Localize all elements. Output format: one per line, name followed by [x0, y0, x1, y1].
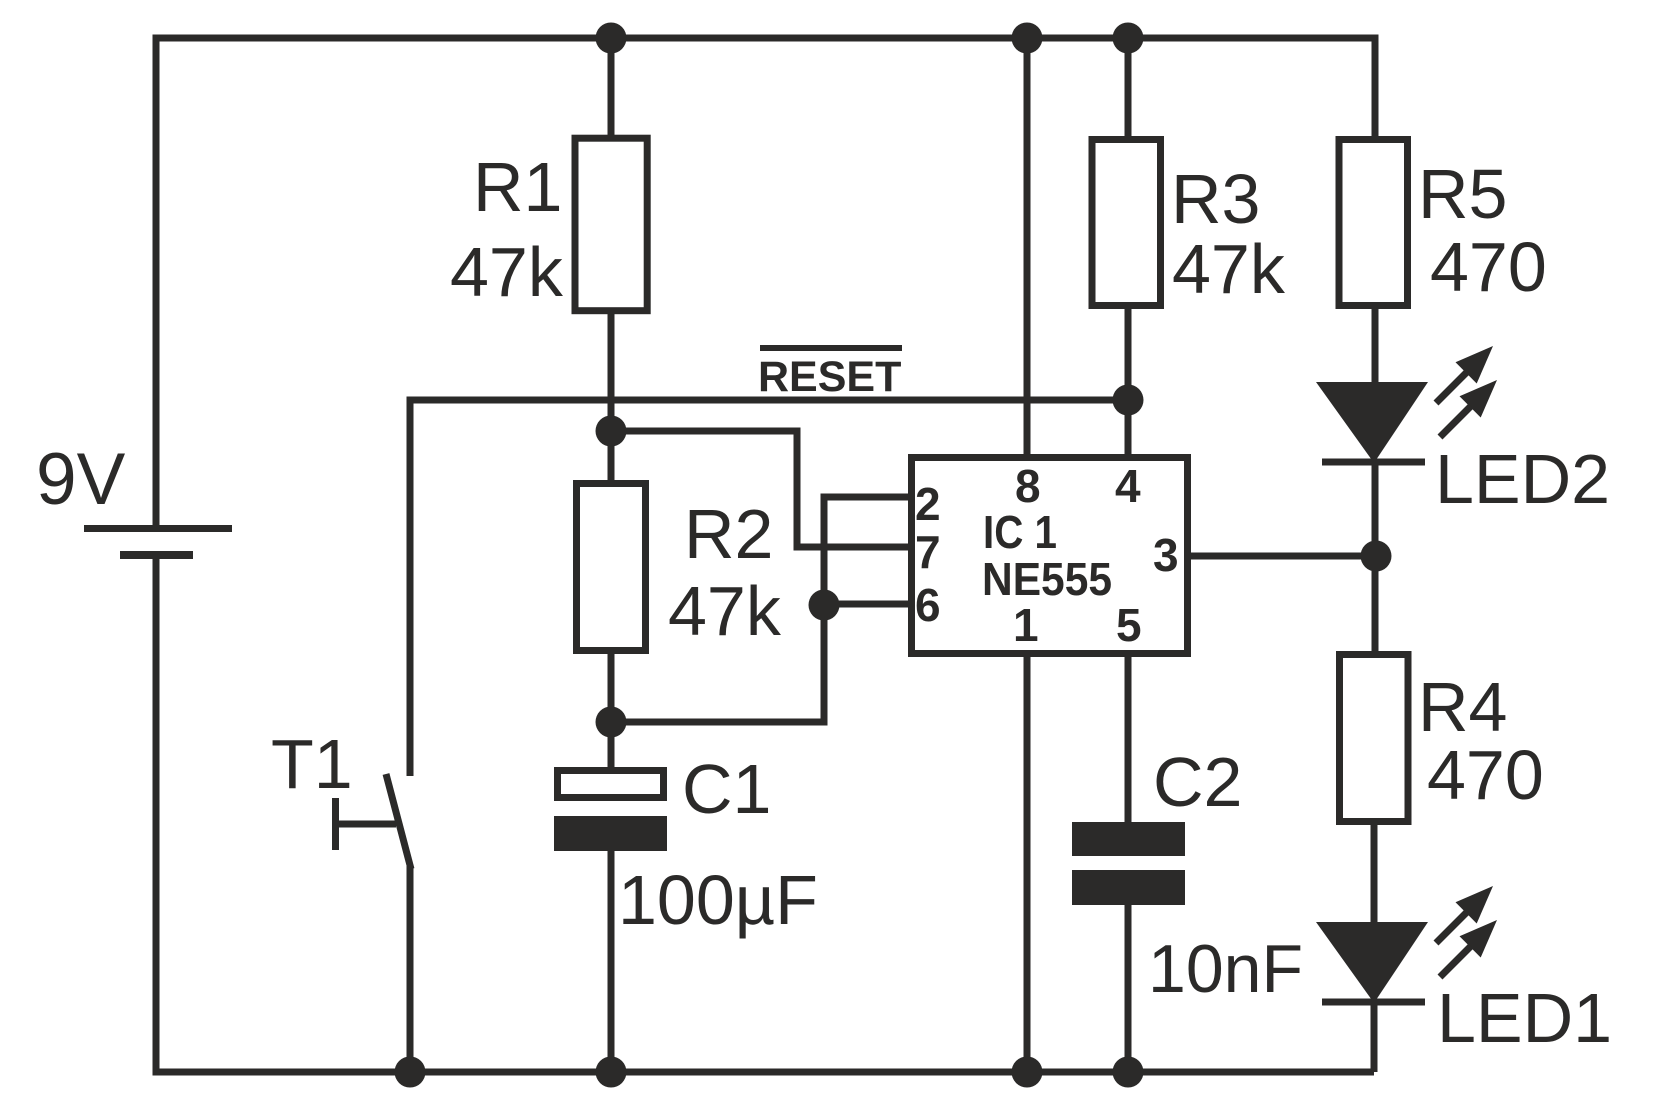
LED1 cathode bar [1322, 999, 1425, 1006]
wire C2 to ground rail [1125, 905, 1132, 1072]
node top-rail/pin8 junction [1012, 23, 1043, 54]
capacitor C2 top plate [1072, 822, 1185, 856]
wire pin 6 stub [824, 601, 908, 608]
switch T1 lower wire [407, 866, 414, 1072]
svg-text:9V: 9V [36, 439, 126, 520]
svg-text:470: 470 [1430, 228, 1547, 306]
svg-text:R2: R2 [684, 495, 773, 573]
wire bottom rail [156, 1069, 1374, 1073]
svg-text:5: 5 [1116, 599, 1142, 651]
node R2/C1/pin2 junction [596, 707, 627, 738]
node pin1/bottom rail junction [1012, 1057, 1043, 1088]
wire RESET net [410, 400, 1128, 776]
svg-text:2: 2 [915, 478, 941, 530]
node C1/bottom rail junction [596, 1057, 627, 1088]
LED2 cathode bar [1322, 459, 1425, 466]
svg-text:1: 1 [1013, 599, 1039, 651]
wire R3 top feed [1125, 38, 1132, 136]
switch T1 actuator [336, 798, 397, 850]
resistor R1 [575, 138, 647, 311]
svg-text:R4: R4 [1418, 668, 1507, 746]
svg-text:7: 7 [915, 526, 941, 578]
resistor R5 [1339, 140, 1408, 306]
svg-text:4: 4 [1115, 460, 1141, 512]
svg-text:RESET: RESET [758, 353, 901, 401]
svg-text:10nF: 10nF [1148, 931, 1303, 1007]
wire R1 bottom to R2 top [608, 314, 615, 480]
wire pin 1 column [1024, 657, 1031, 1072]
wire pin 3 to LED node [1186, 553, 1376, 560]
svg-text:R5: R5 [1418, 155, 1507, 233]
svg-text:6: 6 [915, 579, 941, 631]
node R1/R2/pin7 junction [596, 416, 627, 447]
node RESET/pin4 junction [1113, 385, 1144, 416]
wire pin 5 to C2 [1125, 657, 1132, 822]
svg-text:R1: R1 [473, 148, 562, 226]
RESET overline [760, 345, 902, 351]
wire pin 2 to R2 bottom node [611, 497, 908, 722]
battery BT1 9V positive plate [84, 525, 232, 532]
LED2 light arrow 1 [1436, 346, 1493, 403]
battery BT1 negative plate [120, 551, 193, 559]
LED2 light arrow 2 [1440, 380, 1497, 437]
LED2 anode triangle [1316, 382, 1428, 463]
resistor R3 [1092, 140, 1161, 306]
wire C1 bottom to ground rail [608, 851, 615, 1072]
wire left rail upper (to battery +) [153, 38, 160, 525]
svg-text:3: 3 [1153, 529, 1179, 581]
capacitor C1 negative plate [554, 816, 667, 851]
svg-text:LED1: LED1 [1437, 979, 1612, 1057]
wire R3 bottom to pin 4 [1125, 309, 1132, 455]
wire left rail lower (battery - to bottom rail) [153, 559, 160, 1072]
LED1 light arrow 2 [1440, 920, 1497, 977]
svg-text:47k: 47k [1172, 230, 1286, 308]
node top-rail/R1 junction [596, 23, 627, 54]
resistor R2 [577, 484, 646, 651]
resistor R4 [1340, 655, 1409, 822]
wire top rail [156, 38, 1375, 136]
wire R2 bottom to C1 top [608, 654, 615, 767]
svg-text:T1: T1 [271, 725, 353, 803]
svg-text:IC 1: IC 1 [983, 506, 1057, 558]
wire LED1 cathode to bottom rail [1371, 1002, 1378, 1072]
capacitor C1 positive plate [558, 771, 664, 798]
wire LED2 cathode to R4 top [1372, 462, 1379, 651]
node pin6 junction [809, 590, 840, 621]
capacitor C2 bottom plate [1072, 870, 1185, 905]
LED1 light arrow 1 [1436, 886, 1493, 943]
svg-text:8: 8 [1015, 460, 1041, 512]
svg-text:LED2: LED2 [1435, 440, 1610, 518]
svg-text:47k: 47k [668, 572, 782, 650]
wire R5 bottom to LED2 [1372, 309, 1379, 385]
svg-text:C1: C1 [682, 750, 771, 828]
wire node R1/R2 to pin 7 jog [611, 431, 908, 547]
node C2/bottom rail junction [1113, 1057, 1144, 1088]
svg-text:NE555: NE555 [982, 553, 1112, 605]
IC U1 NE555 body [912, 458, 1188, 654]
svg-text:R3: R3 [1171, 160, 1260, 238]
svg-text:100µF: 100µF [618, 861, 818, 939]
wire R4 bottom to LED1 [1371, 825, 1378, 925]
node T1/bottom rail junction [395, 1057, 426, 1088]
svg-text:C2: C2 [1153, 743, 1242, 821]
switch T1 lever [386, 774, 411, 869]
wire pin 8 column [1024, 38, 1031, 455]
LED1 anode triangle [1316, 922, 1428, 1003]
svg-text:470: 470 [1427, 736, 1544, 814]
wire R1 top feed [608, 38, 615, 135]
node pin3/LED2/R4 junction [1361, 541, 1392, 572]
node top-rail/R3 junction [1113, 23, 1144, 54]
svg-text:47k: 47k [450, 233, 564, 311]
